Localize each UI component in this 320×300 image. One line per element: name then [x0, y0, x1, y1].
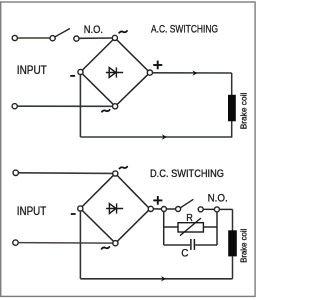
terminal: top input (bottom circuit)	[13, 170, 18, 175]
switch S1 blade	[55, 29, 70, 37]
arrow on bottom return wire (bottom circuit)	[161, 276, 166, 281]
wire: J2 down to C branch	[216, 212, 218, 245]
bridge rectifier BR2 outline	[80, 174, 150, 244]
resistor R body	[178, 223, 203, 232]
diode D2 inside bridge BR2	[106, 203, 123, 213]
label ~ at BR2 top AC terminal	[119, 167, 127, 169]
wire: right rail upper segment (bottom circuit)	[232, 209, 234, 230]
wire: J2 to right rail	[219, 208, 232, 210]
wire: bottom input to BR2 bottom node	[18, 242, 113, 245]
svg-text:R: R	[186, 213, 193, 224]
wire: J1 to switch S2 pole	[166, 208, 175, 210]
wire: R branch right	[203, 226, 217, 228]
wire: S2 throw to junction J2	[203, 208, 214, 210]
svg-text:A.C. SWITCHING: A.C. SWITCHING	[151, 24, 218, 36]
capacitor C left plate	[190, 239, 192, 250]
svg-text:INPUT: INPUT	[17, 63, 47, 77]
svg-text:D.C. SWITCHING: D.C. SWITCHING	[150, 168, 224, 180]
svg-text:Brake coil: Brake coil	[240, 229, 249, 263]
brake coil (top circuit)	[228, 95, 236, 122]
wire: bottom return (bottom circuit)	[80, 278, 232, 280]
wire: BR1 positive terminal to right rail	[153, 72, 232, 74]
switch S2 pole terminal	[176, 207, 181, 212]
arrow on positive wire (top circuit)	[193, 70, 198, 75]
bridge rectifier BR1 outline	[81, 38, 150, 106]
wire: R branch left	[164, 226, 178, 228]
node: BR1 negative terminal	[78, 69, 83, 74]
wire: BR2 positive to junction J1	[153, 208, 161, 210]
wire: C branch right	[195, 244, 217, 246]
wire: BR1 negative terminal down	[79, 75, 81, 137]
switch S2 throw terminal	[198, 207, 203, 212]
switch S2 blade	[181, 199, 194, 207]
brake coil (bottom circuit)	[228, 230, 237, 256]
label - (BR2 negative)	[71, 213, 76, 215]
terminal: top input L1	[12, 35, 17, 40]
diode D1 inside bridge BR1	[106, 67, 123, 77]
wire: BR2 negative terminal down	[79, 211, 81, 279]
junction node J2	[214, 207, 219, 212]
wire: right rail upper segment (top circuit)	[231, 73, 233, 95]
wire: switch S1 to bridge BR1 top node	[79, 37, 112, 39]
resistor R diagonal stroke	[180, 218, 201, 236]
node: BR2 AC terminal bottom	[113, 241, 118, 246]
label ~ at BR1 bottom AC terminal	[102, 110, 110, 112]
terminal: bottom input L2	[12, 104, 17, 109]
node: BR2 negative terminal	[78, 206, 83, 211]
wire: top input to BR2 top node	[19, 172, 113, 175]
svg-text:Brake coil: Brake coil	[239, 92, 248, 129]
junction node J1	[161, 207, 166, 212]
node: BR1 positive terminal	[147, 70, 152, 75]
wire: J1 down to R and C branches	[163, 212, 165, 246]
node: BR1 AC terminal bottom	[113, 104, 118, 109]
svg-text:N.O.: N.O.	[208, 193, 228, 205]
node: BR1 AC terminal top	[112, 35, 117, 40]
node: BR2 AC terminal top	[113, 171, 118, 176]
wire: C branch left	[164, 244, 190, 246]
terminal: bottom input (bottom circuit)	[13, 240, 18, 245]
switch S1 pole terminal	[50, 36, 55, 41]
label ~ at BR2 bottom AC terminal	[102, 247, 110, 249]
capacitor C right plate	[193, 239, 195, 250]
wire: bottom return (top circuit)	[80, 136, 231, 138]
label ~ at BR1 top AC terminal	[119, 31, 127, 33]
wire: right rail lower segment (top circuit)	[231, 121, 233, 138]
label - (BR1 negative)	[70, 75, 75, 77]
label + (BR1 positive)	[153, 61, 162, 70]
switch S1 throw terminal	[74, 36, 79, 41]
arrow on bottom return wire (top circuit)	[162, 134, 167, 139]
wire: right rail lower segment (bottom circuit)	[232, 256, 234, 279]
svg-text:INPUT: INPUT	[17, 204, 47, 218]
node: BR2 positive terminal	[148, 206, 153, 211]
wire: bottom input to bridge BR1 bottom node	[17, 105, 112, 107]
wire: top input to switch S1	[18, 37, 51, 39]
label + (BR2 positive)	[153, 196, 162, 205]
svg-text:C: C	[181, 247, 188, 259]
svg-text:N.O.: N.O.	[84, 24, 103, 36]
